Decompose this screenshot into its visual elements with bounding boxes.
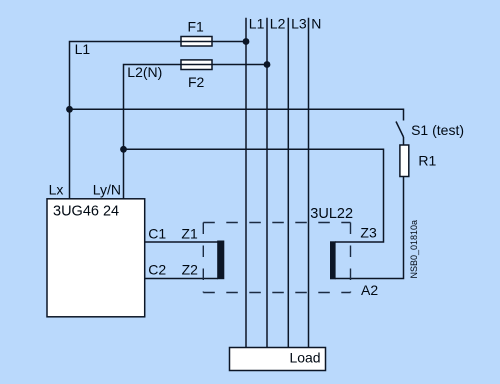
wire L2(N) feeder bbox=[124, 65, 268, 199]
fuse F2 bbox=[181, 60, 212, 70]
svg-text:3UL22: 3UL22 bbox=[310, 206, 353, 222]
sensor bar Z1-Z2 bbox=[217, 241, 224, 280]
junction dot sense branch bbox=[120, 146, 127, 153]
wire sense branch to Z3 bbox=[124, 149, 384, 242]
svg-text:3UG46 24: 3UG46 24 bbox=[53, 204, 119, 220]
bus L1 bbox=[245, 18, 247, 348]
svg-text:L2: L2 bbox=[270, 16, 286, 32]
junction dot L1 bus bbox=[243, 38, 250, 45]
svg-text:A2: A2 bbox=[361, 282, 378, 298]
dashed box left edge bbox=[202, 223, 204, 293]
wire R1 to A2 bbox=[335, 177, 404, 279]
svg-text:L1: L1 bbox=[75, 41, 91, 57]
svg-text:N: N bbox=[311, 16, 321, 32]
svg-text:NSB0_01810a: NSB0_01810a bbox=[409, 220, 419, 279]
relay 3UG46 24 box bbox=[47, 199, 145, 317]
junction dot L2 bus bbox=[264, 61, 271, 68]
svg-text:F1: F1 bbox=[188, 19, 205, 35]
svg-text:R1: R1 bbox=[418, 153, 436, 169]
dashed box top edge bbox=[203, 222, 350, 224]
junction dot test branch bbox=[66, 106, 73, 113]
fuse F1 bbox=[181, 37, 212, 47]
load box bbox=[230, 348, 326, 371]
resistor R1 bbox=[400, 145, 409, 177]
svg-text:Z2: Z2 bbox=[182, 262, 199, 278]
bus N bbox=[308, 18, 310, 348]
wire switch to resistor bbox=[403, 137, 405, 145]
svg-text:L3: L3 bbox=[291, 16, 307, 32]
dashed box bottom edge bbox=[203, 292, 350, 294]
svg-text:L1: L1 bbox=[249, 16, 265, 32]
wire L1 feeder bbox=[70, 42, 247, 199]
svg-text:Lx: Lx bbox=[49, 181, 64, 197]
svg-text:L2(N): L2(N) bbox=[127, 64, 162, 80]
bus L2 bbox=[266, 18, 268, 348]
svg-text:Ly/N: Ly/N bbox=[93, 181, 121, 197]
svg-text:F2: F2 bbox=[188, 74, 205, 90]
wire test branch bbox=[70, 109, 404, 120]
svg-text:Load: Load bbox=[289, 350, 320, 366]
svg-text:Z3: Z3 bbox=[360, 224, 377, 240]
svg-text:C1: C1 bbox=[148, 225, 166, 241]
dashed box right edge bbox=[350, 223, 352, 293]
bus L3 bbox=[287, 18, 289, 348]
sensor bar 3UL22 bbox=[330, 241, 336, 279]
wire C2 bbox=[145, 278, 218, 280]
wire C1 bbox=[145, 241, 218, 243]
svg-text:C2: C2 bbox=[148, 262, 166, 278]
svg-text:S1 (test): S1 (test) bbox=[411, 122, 464, 138]
switch S1 bbox=[396, 122, 404, 138]
svg-text:Z1: Z1 bbox=[181, 225, 198, 241]
